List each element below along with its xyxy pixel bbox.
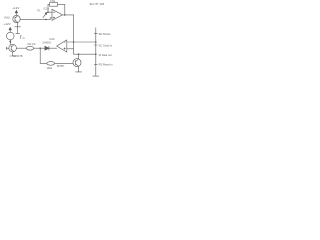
ground (Q3 emitter) [76,71,82,73]
wire Q3 emitter down [78,67,80,72]
wire R2 to diode D1 [34,47,45,49]
wire U1 output [62,14,73,16]
+12V supply arrow to sensor [9,27,11,32]
svg-text:ELV 87 148: ELV 87 148 [90,2,105,6]
op-amp U2 (points left) [57,40,67,52]
node feedback junction at output [64,14,66,16]
node bus junction y54 [95,53,97,55]
node collector junction [78,53,80,55]
wire U2 non-inverting input [67,48,74,50]
+12V supply arrow to Q1 collector [15,10,17,15]
resistor R2 (ellipse body) [26,46,33,50]
potentiometer wiper arrow P1 [43,12,47,17]
sensor B1 (circle) [7,32,15,40]
node T-bar on Q1 emitter [15,26,21,28]
node tick y64 [94,63,97,65]
wire main vertical bus U1 output down [73,15,75,54]
resistor R1 (feedback box) [50,3,58,7]
svg-text:+12V: +12V [12,6,19,10]
svg-text:IC1a: IC1a [43,7,49,11]
svg-text:P1: P1 [37,9,41,12]
resistor R3 (ellipse body) [47,62,55,66]
wire feedback up left [48,4,50,12]
wire Q1 emitter down [17,22,19,33]
capacitor stub at Q2 left [6,47,9,50]
ground (output bus) [93,75,99,77]
wire U1 inverting input [48,11,52,13]
svg-text:SC Clock in: SC Clock in [99,43,113,47]
node bus junction y42 [95,41,97,43]
node feedback junction at inverting input [47,11,49,13]
svg-text:470k: 470k [50,0,56,3]
svg-text:IC1b: IC1b [49,37,55,41]
diode D1 [45,46,49,50]
node junction at x40 [39,47,41,49]
svg-text:SI Data out: SI Data out [99,53,112,57]
node tick y45 [94,44,97,46]
svg-text:RS Reset in: RS Reset in [99,62,113,66]
transistor Q1 [13,15,20,22]
svg-text:(M1): (M1) [4,16,10,20]
wire U2 inverting input [67,41,74,43]
svg-text:f: f [20,35,22,41]
svg-text:in: in [23,36,26,40]
op-amp U1 [52,9,62,20]
node wiper junction [45,19,47,21]
wire feedback right down [58,4,65,15]
wire D1 to op-amp U2 output [49,47,57,49]
svg-text:100k: 100k [46,66,52,70]
wire R3 to Q3 base [55,62,73,64]
node tick y33 [94,33,97,35]
wire to output header y54 [74,53,96,55]
transistor Q3 [73,59,81,67]
wire to output header y42 [74,41,96,43]
transistor Q2 [9,44,17,52]
wire Q1 base to op-amp U1 non-inverting input [20,18,52,20]
wire Q2 base to resistor R2 [16,47,26,49]
wire right output bus vertical [95,28,97,76]
wire Q2 emitter to ground [12,52,14,56]
svg-text:1N4002: 1N4002 [42,42,51,45]
ground (Q2 emitter) [10,55,16,57]
wire junction drop to lower row [40,48,47,63]
wire Q3 collector up [78,54,80,59]
node junction on vertical at inverting input of U2 [73,41,75,43]
svg-text:10k 1%: 10k 1% [27,43,36,46]
capacitor plate (bottom of Q1 emitter branch) [16,32,20,34]
svg-text:BC547B: BC547B [13,55,23,58]
svg-text:SD Strobe: SD Strobe [99,32,112,36]
svg-text:BC557: BC557 [57,65,65,68]
svg-text:+12V: +12V [4,22,11,26]
wire sensor to Q2 with current arrow [10,40,11,44]
